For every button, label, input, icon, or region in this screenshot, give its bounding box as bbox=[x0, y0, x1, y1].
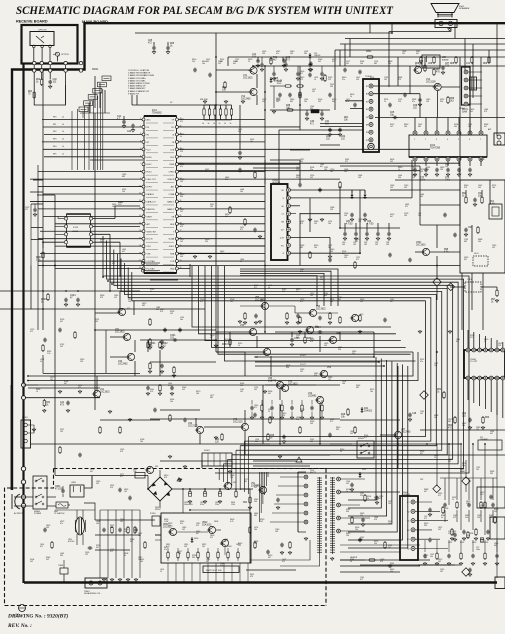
resistor row R31-R36 bbox=[202, 105, 233, 125]
svg-text:R31-R36: R31-R36 bbox=[200, 99, 208, 101]
label degauss bbox=[84, 591, 101, 595]
svg-text:2k2: 2k2 bbox=[30, 561, 33, 563]
svg-text:2SA1015: 2SA1015 bbox=[202, 523, 212, 526]
svg-text:R91: R91 bbox=[243, 502, 248, 504]
svg-text:1k: 1k bbox=[62, 139, 64, 141]
tuner pins bbox=[33, 45, 52, 48]
svg-text:2k2: 2k2 bbox=[300, 371, 303, 373]
components rr2 bbox=[481, 416, 490, 429]
svg-text:8 BAND STANDBY UP: 8 BAND STANDBY UP bbox=[128, 90, 150, 93]
wire y50 bbox=[335, 49, 505, 51]
wire y419 bbox=[150, 418, 340, 420]
svg-text:CVBS: CVBS bbox=[169, 164, 175, 166]
svg-text:330: 330 bbox=[398, 177, 401, 179]
resistor r t4 bbox=[466, 56, 473, 65]
box end thick bus bbox=[495, 577, 505, 589]
svg-text:473: 473 bbox=[398, 79, 401, 81]
svg-text:6 BAND MENU UP: 6 BAND MENU UP bbox=[128, 85, 146, 88]
wires IC01 upper-left bundle bbox=[42, 120, 142, 157]
svg-text:10k: 10k bbox=[370, 391, 373, 393]
svg-text:C951: C951 bbox=[448, 542, 452, 544]
svg-text:103: 103 bbox=[324, 345, 327, 347]
capacitor C41b bbox=[60, 401, 70, 413]
junction pw bbox=[189, 488, 237, 490]
svg-text:BT: BT bbox=[366, 86, 368, 88]
svg-text:4k7: 4k7 bbox=[64, 383, 67, 385]
bridge rectifier D801 bbox=[148, 470, 172, 511]
svg-text:103: 103 bbox=[477, 517, 480, 519]
capacitor C801 bbox=[55, 486, 65, 493]
svg-text:D807: D807 bbox=[220, 544, 224, 546]
svg-text:BAND 1: BAND 1 bbox=[167, 200, 174, 203]
resistor R51 bbox=[437, 389, 445, 399]
svg-text:471: 471 bbox=[420, 453, 423, 455]
resistor R303 bbox=[222, 338, 231, 346]
svg-text:471: 471 bbox=[438, 495, 441, 497]
diamond var bbox=[433, 278, 441, 286]
svg-text:2SD882: 2SD882 bbox=[308, 395, 317, 397]
box right lower bbox=[477, 487, 505, 539]
svg-text:47u: 47u bbox=[164, 549, 167, 551]
ground fbt bbox=[304, 537, 334, 560]
svg-text:1k: 1k bbox=[219, 123, 221, 125]
svg-text:RB154: RB154 bbox=[155, 509, 161, 511]
cluster mid top bbox=[270, 81, 304, 113]
resistor R98 bbox=[467, 531, 473, 539]
svg-text:102: 102 bbox=[60, 431, 63, 433]
wire h330 bbox=[95, 329, 216, 331]
svg-text:1k: 1k bbox=[202, 123, 204, 125]
svg-text:4k7: 4k7 bbox=[60, 321, 63, 323]
svg-text:TO CRT: TO CRT bbox=[470, 361, 478, 363]
svg-text:7 BAND MEMORY: 7 BAND MEMORY bbox=[128, 87, 146, 90]
ecap C97 bbox=[476, 538, 484, 551]
connector CN901 CRT bbox=[400, 496, 418, 560]
svg-text:4k7: 4k7 bbox=[390, 301, 393, 303]
switch box SW801 bbox=[33, 476, 47, 515]
components y50-60b bbox=[270, 57, 278, 65]
svg-text:2k2: 2k2 bbox=[255, 441, 258, 443]
wires IC201 right bbox=[93, 219, 140, 243]
svg-text:472: 472 bbox=[379, 498, 382, 500]
svg-text:10k: 10k bbox=[374, 543, 377, 545]
capacitor C44 bbox=[282, 435, 286, 444]
svg-text:473: 473 bbox=[164, 477, 167, 479]
svg-text:AC INPUT: AC INPUT bbox=[14, 512, 24, 515]
svg-text:COR: COR bbox=[170, 149, 175, 151]
wire top y33 bbox=[135, 23, 392, 33]
svg-text:1k: 1k bbox=[480, 161, 482, 163]
svg-text:4k7: 4k7 bbox=[484, 126, 487, 128]
svg-text:4k7: 4k7 bbox=[130, 541, 133, 543]
transistor V82 bbox=[223, 482, 236, 490]
svg-text:TDA7056: TDA7056 bbox=[430, 146, 441, 149]
svg-text:103: 103 bbox=[375, 244, 378, 246]
wire t801 bbox=[77, 510, 83, 545]
svg-text:102: 102 bbox=[50, 379, 53, 381]
svg-text:TDA8362: TDA8362 bbox=[152, 111, 162, 114]
svg-text:1k: 1k bbox=[484, 341, 486, 343]
svg-text:223: 223 bbox=[282, 291, 285, 293]
svg-text:RF4: RF4 bbox=[53, 146, 56, 148]
svg-text:2k2: 2k2 bbox=[310, 177, 313, 179]
resistor row mid band bbox=[250, 400, 324, 419]
wire y66 bbox=[253, 65, 505, 67]
svg-text:1 BAND PROGRAM UP: 1 BAND PROGRAM UP bbox=[128, 72, 151, 75]
svg-text:R954: R954 bbox=[484, 542, 488, 544]
wire y117 bbox=[375, 117, 505, 119]
label main12v bbox=[118, 201, 124, 206]
svg-text:SW01: SW01 bbox=[92, 69, 99, 71]
power area verticals bbox=[100, 510, 140, 581]
svg-text:VIDEO INT: VIDEO INT bbox=[147, 231, 157, 233]
svg-text:330: 330 bbox=[370, 79, 373, 81]
wire bundle P bbox=[348, 357, 408, 548]
parts bottom right cols bbox=[440, 478, 497, 544]
svg-text:2SB772: 2SB772 bbox=[268, 380, 277, 382]
svg-text:47u: 47u bbox=[310, 341, 313, 343]
svg-text:473: 473 bbox=[110, 487, 113, 489]
svg-text:223: 223 bbox=[296, 337, 299, 339]
svg-text:4k7: 4k7 bbox=[96, 547, 99, 549]
svg-text:LM358: LM358 bbox=[72, 231, 79, 233]
label mid bbox=[444, 249, 449, 253]
wires between rows bbox=[34, 65, 65, 69]
svg-text:1k2: 1k2 bbox=[124, 491, 127, 493]
svg-text:103: 103 bbox=[178, 553, 181, 555]
wires FBT right bbox=[340, 479, 370, 531]
wire row bus bbox=[204, 105, 232, 120]
svg-text:473: 473 bbox=[374, 519, 377, 521]
label IC02 bbox=[430, 144, 441, 149]
switch box SW402 bbox=[357, 438, 374, 458]
svg-text:471: 471 bbox=[330, 421, 333, 423]
components fbt right2 bbox=[351, 516, 365, 531]
svg-text:103: 103 bbox=[330, 86, 333, 88]
connector TU401 tuner bbox=[363, 79, 379, 152]
box right section bbox=[460, 180, 505, 273]
wires tuner pins down bbox=[34, 48, 58, 62]
svg-text:10k: 10k bbox=[314, 247, 317, 249]
capacitor C06 bbox=[166, 42, 175, 50]
svg-text:2k2: 2k2 bbox=[390, 161, 393, 163]
svg-text:102: 102 bbox=[300, 161, 303, 163]
svg-text:682: 682 bbox=[122, 176, 125, 178]
svg-text:2k2: 2k2 bbox=[312, 91, 315, 93]
wire degauss bbox=[64, 560, 85, 583]
svg-text:47u: 47u bbox=[296, 291, 299, 293]
svg-text:2k2: 2k2 bbox=[230, 301, 233, 303]
svg-text:103: 103 bbox=[330, 251, 333, 253]
wire right box bbox=[415, 225, 460, 300]
svg-text:V15: V15 bbox=[423, 66, 426, 68]
wires tuner left bbox=[320, 101, 363, 127]
transistor V14 bbox=[426, 79, 441, 91]
svg-text:B2: B2 bbox=[366, 109, 368, 111]
connector CN201 bbox=[271, 184, 291, 260]
svg-text:330: 330 bbox=[346, 511, 349, 513]
svg-text:1k2: 1k2 bbox=[466, 537, 469, 539]
transistor V11 bbox=[243, 67, 257, 79]
transistor V12 bbox=[241, 88, 257, 100]
triangle w1 bbox=[177, 478, 181, 481]
label DRAWING No bbox=[7, 613, 69, 620]
resistor R44 bbox=[215, 433, 223, 443]
svg-text:CN301: CN301 bbox=[22, 417, 28, 419]
wires CN901 right bbox=[415, 502, 448, 549]
capacitor C31 bbox=[320, 110, 324, 120]
resistor R69 bbox=[447, 96, 455, 104]
svg-text:330: 330 bbox=[286, 367, 289, 369]
svg-text:103: 103 bbox=[275, 531, 278, 533]
diode D901 bbox=[359, 469, 367, 478]
svg-text:POWER: POWER bbox=[34, 513, 42, 515]
label RECEIVE BOARD bbox=[16, 20, 48, 24]
svg-text:473: 473 bbox=[168, 385, 171, 387]
svg-text:330: 330 bbox=[490, 473, 493, 475]
thermistor bbox=[58, 565, 68, 574]
svg-text:2k2: 2k2 bbox=[318, 61, 321, 63]
svg-text:471: 471 bbox=[356, 259, 359, 261]
svg-text:471: 471 bbox=[300, 79, 303, 81]
svg-text:4k7: 4k7 bbox=[390, 216, 393, 218]
svg-text:VCO: VCO bbox=[147, 149, 152, 151]
svg-text:103: 103 bbox=[404, 187, 407, 189]
transistor V44 bbox=[308, 393, 324, 404]
wire v11b bbox=[10, 385, 12, 490]
svg-text:223: 223 bbox=[296, 169, 299, 171]
svg-text:223: 223 bbox=[412, 169, 415, 171]
capacitor C81 bbox=[346, 213, 354, 226]
junction thick2 bbox=[21, 467, 25, 508]
svg-text:4k7: 4k7 bbox=[210, 337, 213, 339]
fb y57 bbox=[366, 51, 374, 58]
main board border bbox=[12, 23, 505, 490]
svg-text:223: 223 bbox=[328, 79, 331, 81]
svg-text:47u: 47u bbox=[462, 465, 465, 467]
labels right mid bbox=[330, 169, 421, 259]
junction left bbox=[42, 241, 79, 292]
connector speaker 2-pin bbox=[435, 20, 457, 28]
svg-text:682: 682 bbox=[356, 387, 359, 389]
wire v216 bbox=[215, 57, 217, 330]
svg-text:471: 471 bbox=[40, 546, 43, 548]
svg-text:682: 682 bbox=[374, 63, 377, 65]
svg-text:102: 102 bbox=[468, 126, 471, 128]
vertical right wires bbox=[460, 23, 497, 180]
svg-text:4.7/50: 4.7/50 bbox=[367, 223, 374, 225]
cascade wires bbox=[80, 76, 110, 113]
svg-text:10k: 10k bbox=[465, 517, 468, 519]
svg-text:473: 473 bbox=[364, 437, 367, 439]
svg-text:471: 471 bbox=[224, 341, 227, 343]
plug AC bbox=[12, 494, 24, 515]
svg-text:1k2: 1k2 bbox=[314, 223, 317, 225]
diode D41 bbox=[361, 407, 373, 413]
svg-text:103: 103 bbox=[420, 171, 423, 173]
svg-text:IC201: IC201 bbox=[73, 227, 79, 229]
ground t2 bbox=[166, 51, 170, 54]
svg-text:1k: 1k bbox=[340, 451, 342, 453]
ecap C807 bbox=[215, 489, 222, 506]
junction y265 bbox=[54, 265, 438, 267]
capacitor C22 bbox=[127, 124, 135, 133]
svg-text:SSC: SSC bbox=[170, 157, 175, 159]
svg-text:RGB IN: RGB IN bbox=[168, 179, 175, 181]
svg-text:102: 102 bbox=[210, 206, 213, 208]
svg-text:4k7: 4k7 bbox=[456, 341, 459, 343]
svg-text:1k2: 1k2 bbox=[114, 297, 117, 299]
svg-text:2SC2482: 2SC2482 bbox=[241, 98, 251, 100]
svg-text:223: 223 bbox=[262, 53, 265, 55]
svg-text:DEFL OUT: DEFL OUT bbox=[147, 179, 157, 181]
svg-text:4.43: 4.43 bbox=[490, 203, 495, 205]
tuner OPTION box bbox=[30, 32, 54, 46]
svg-text:10k: 10k bbox=[430, 556, 433, 558]
svg-text:1k: 1k bbox=[160, 571, 162, 573]
svg-text:4k7: 4k7 bbox=[233, 63, 236, 65]
svg-text:103: 103 bbox=[418, 215, 421, 217]
svg-text:RGB: RGB bbox=[170, 254, 175, 256]
svg-text:4.7k: 4.7k bbox=[230, 521, 233, 523]
svg-text:1A04: 1A04 bbox=[15, 615, 19, 618]
svg-text:D806: D806 bbox=[214, 521, 218, 523]
wire y357 bbox=[255, 357, 384, 366]
flyback transformer T901 windings bbox=[317, 477, 335, 554]
wire mid2 bbox=[216, 332, 271, 376]
label CN501 bbox=[470, 359, 478, 363]
svg-text:473: 473 bbox=[332, 61, 335, 63]
svg-text:2SC1815: 2SC1815 bbox=[316, 308, 326, 310]
labels wire bundle bbox=[53, 116, 64, 155]
wire y444 bbox=[31, 443, 461, 445]
svg-text:sound: sound bbox=[442, 59, 449, 61]
resistor r t2 bbox=[428, 56, 435, 65]
svg-text:SCHEMATIC DIAGRAM FOR PAL: SCHEMATIC DIAGRAM FOR PAL SECAM B/G D/K … bbox=[16, 5, 394, 17]
components under fbt bbox=[280, 541, 292, 554]
parts left mid bbox=[42, 330, 176, 395]
svg-text:682: 682 bbox=[300, 247, 303, 249]
svg-text:103: 103 bbox=[330, 209, 333, 211]
inductor L203 bbox=[310, 106, 319, 113]
svg-text:7: 7 bbox=[480, 139, 481, 141]
components tuner left bbox=[326, 128, 346, 141]
svg-text:330: 330 bbox=[304, 53, 307, 55]
svg-text:1k: 1k bbox=[224, 123, 226, 125]
svg-text:102: 102 bbox=[346, 483, 349, 485]
resistor R02 bbox=[36, 78, 43, 86]
op-amp IC201 bbox=[64, 214, 92, 247]
junctions top bbox=[369, 22, 450, 34]
capacitor C68 bbox=[413, 98, 422, 110]
capacitor C301 bbox=[170, 335, 177, 342]
svg-text:1k: 1k bbox=[452, 499, 454, 501]
svg-text:G2: G2 bbox=[407, 511, 409, 513]
svg-text:1k: 1k bbox=[36, 391, 38, 393]
svg-text:1k: 1k bbox=[268, 411, 270, 413]
wire v38 bbox=[37, 165, 39, 330]
svg-text:2SC2482: 2SC2482 bbox=[401, 431, 411, 433]
svg-text:471: 471 bbox=[30, 331, 33, 333]
dashed box power left bbox=[5, 469, 54, 606]
svg-text:BSC25: BSC25 bbox=[310, 472, 316, 474]
svg-text:1k2: 1k2 bbox=[182, 389, 185, 391]
wire y385 bbox=[25, 384, 340, 386]
svg-text:471: 471 bbox=[112, 263, 115, 265]
diamond D92 bbox=[433, 485, 441, 493]
svg-text:100u/400V: 100u/400V bbox=[184, 504, 193, 506]
transistor V56 bbox=[308, 306, 326, 317]
svg-text:DATA IN: DATA IN bbox=[147, 193, 155, 196]
diode D22 bbox=[352, 190, 367, 199]
labels c3031 bbox=[310, 121, 330, 125]
svg-text:473: 473 bbox=[225, 179, 228, 181]
choke L801 bbox=[15, 605, 26, 618]
svg-text:47u: 47u bbox=[420, 361, 423, 363]
wire pw3 bbox=[182, 488, 184, 513]
resistor R203 bbox=[41, 293, 49, 303]
svg-text:TH801: TH801 bbox=[58, 565, 63, 567]
svg-text:4k7: 4k7 bbox=[424, 491, 427, 493]
diode D803 bbox=[191, 537, 199, 543]
svg-text:4k7: 4k7 bbox=[332, 101, 335, 103]
connector CN801 degauss bbox=[85, 578, 107, 588]
connector SK301 bbox=[462, 67, 483, 106]
svg-text:103: 103 bbox=[310, 423, 313, 425]
svg-text:47k: 47k bbox=[180, 523, 183, 525]
label IC01 bbox=[152, 110, 162, 114]
svg-text:473: 473 bbox=[180, 226, 183, 228]
svg-text:SCREEN: SCREEN bbox=[402, 494, 411, 496]
capacitor C901 bbox=[346, 481, 354, 491]
svg-text:2: 2 bbox=[425, 139, 426, 141]
svg-text:1k: 1k bbox=[248, 61, 250, 63]
svg-text:1k2: 1k2 bbox=[478, 187, 481, 189]
svg-text:RF3: RF3 bbox=[53, 139, 56, 141]
svg-text:103: 103 bbox=[310, 441, 313, 443]
svg-text:1k: 1k bbox=[238, 345, 240, 347]
svg-text:103: 103 bbox=[388, 503, 391, 505]
svg-text:BCK-40: BCK-40 bbox=[68, 541, 74, 543]
svg-text:PC801: PC801 bbox=[150, 513, 156, 515]
connector FBT left pins bbox=[304, 475, 308, 524]
resistor R52 bbox=[448, 416, 456, 429]
svg-text:47u: 47u bbox=[426, 169, 429, 171]
svg-text:V81: V81 bbox=[155, 466, 158, 468]
text control location bbox=[128, 69, 154, 95]
svg-text:1k2: 1k2 bbox=[328, 379, 331, 381]
svg-text:471: 471 bbox=[300, 73, 303, 75]
svg-text:100: 100 bbox=[342, 383, 345, 385]
varicap D01 bbox=[53, 52, 69, 56]
svg-text:103: 103 bbox=[440, 169, 443, 171]
transistor V803 bbox=[220, 539, 232, 548]
svg-text:100: 100 bbox=[404, 126, 407, 128]
wire y38 bbox=[345, 38, 505, 40]
svg-text:47u: 47u bbox=[310, 169, 313, 171]
svg-text:102: 102 bbox=[240, 391, 243, 393]
svg-text:471: 471 bbox=[360, 579, 363, 581]
svg-text:2SC2482: 2SC2482 bbox=[118, 363, 128, 365]
transistor V31 bbox=[115, 329, 131, 341]
svg-text:471: 471 bbox=[120, 476, 123, 478]
capacitor C96 bbox=[448, 531, 457, 541]
svg-text:2k2: 2k2 bbox=[260, 521, 263, 523]
svg-text:330: 330 bbox=[60, 555, 63, 557]
svg-text:OPTION: OPTION bbox=[61, 54, 69, 56]
svg-text:4k7: 4k7 bbox=[268, 393, 271, 395]
wires CN501 up bbox=[468, 330, 503, 348]
